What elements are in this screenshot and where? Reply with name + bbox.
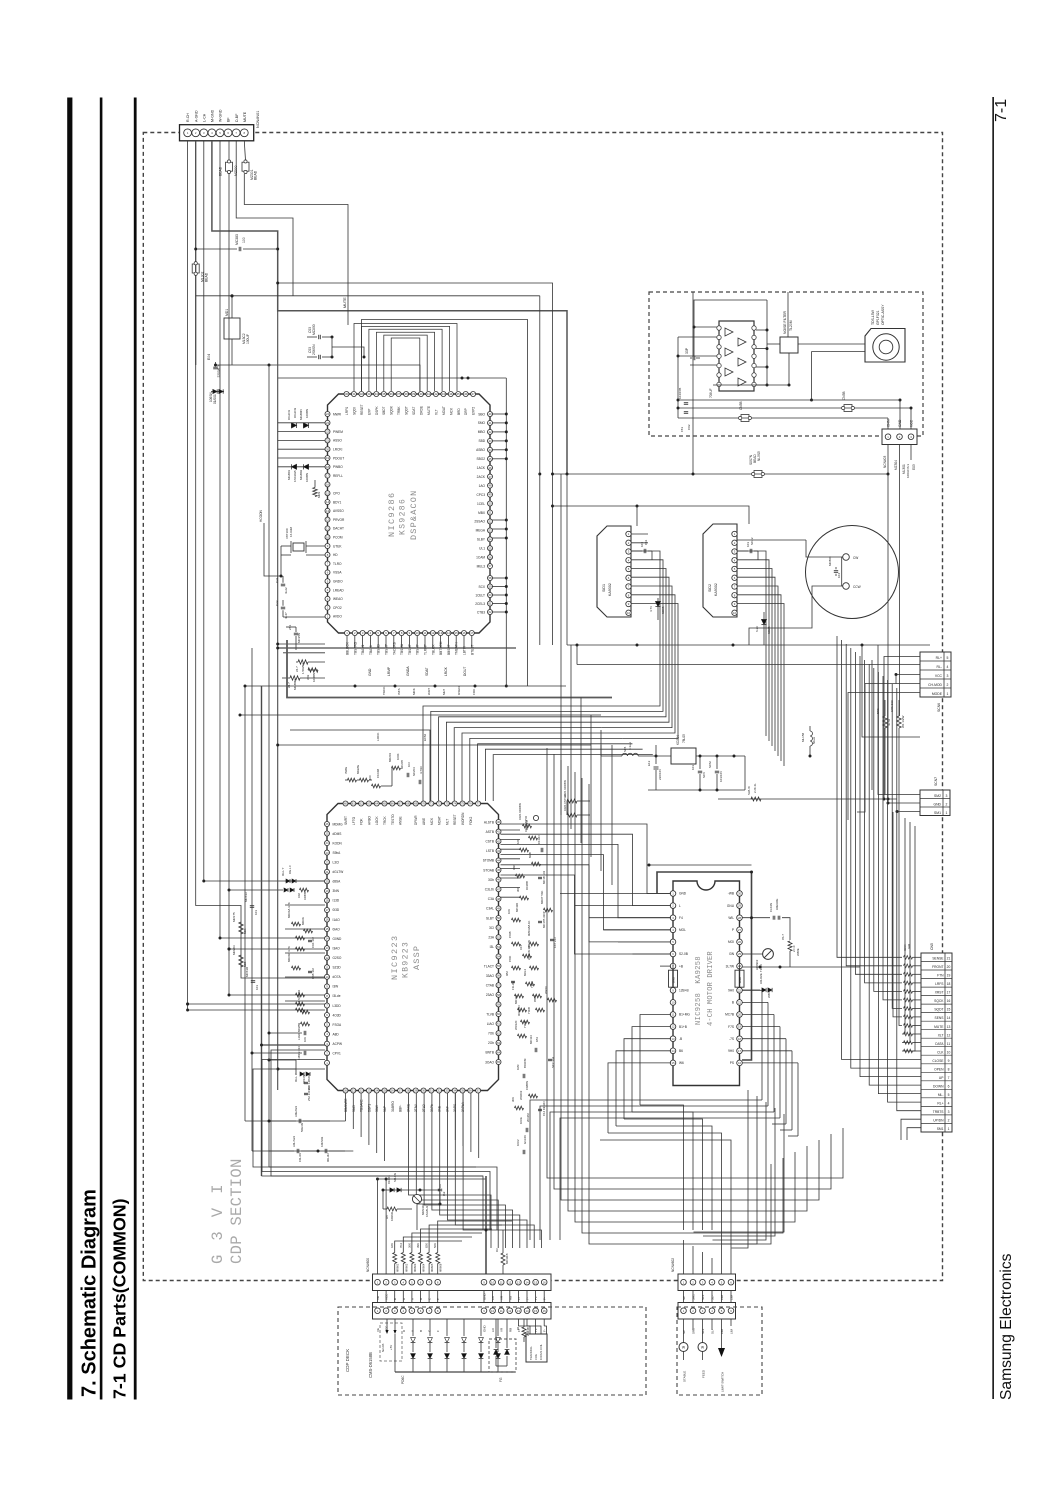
- svg-text:46: 46: [497, 878, 501, 882]
- svg-text:PCOM: PCOM: [333, 536, 343, 540]
- svg-text:-7S: -7S: [729, 1037, 734, 1041]
- svg-text:BDY1: BDY1: [333, 500, 342, 504]
- svg-text:12: 12: [508, 1280, 512, 1284]
- svg-text:10K: 10K: [303, 1037, 307, 1042]
- svg-text:47: 47: [488, 475, 492, 479]
- svg-text:FEED: FEED: [702, 1369, 706, 1378]
- svg-text:RL+: RL+: [937, 1101, 943, 1105]
- svg-text:MR66A 4.7K: MR66A 4.7K: [287, 902, 291, 918]
- svg-text:UP: UP: [939, 1076, 944, 1080]
- svg-text:G2SO: G2SO: [333, 956, 342, 960]
- svg-text:56K: 56K: [243, 929, 247, 934]
- svg-text:T+: T+: [534, 1328, 538, 1332]
- svg-text:SZ3D: SZ3D: [333, 966, 342, 970]
- wire motor lower: [749, 586, 843, 645]
- svg-text:RESET: RESET: [360, 404, 364, 415]
- svg-text:E04: E04: [207, 354, 211, 360]
- limit switch dashed box: [677, 1307, 762, 1395]
- svg-text:23: 23: [325, 851, 329, 855]
- svg-text:DACHT: DACHT: [333, 527, 344, 531]
- svg-text:M6L3: M6L3: [523, 969, 527, 976]
- connector NCN#600 row A: [373, 1274, 552, 1291]
- svg-text:2.2K 4L: 2.2K 4L: [753, 783, 757, 793]
- svg-text:15: 15: [534, 1280, 538, 1284]
- regulator KD204 78L05: [671, 748, 696, 764]
- svg-text:6: 6: [948, 1084, 950, 1088]
- svg-text:3: 3: [947, 674, 949, 678]
- svg-text:M6B: M6B: [528, 852, 532, 858]
- svg-text:X021 9RRBN: X021 9RRBN: [518, 803, 522, 820]
- svg-text:MGB02: MGB02: [299, 469, 303, 480]
- svg-text:45: 45: [457, 392, 461, 396]
- capacitor A0L/S22: [269, 1150, 294, 1152]
- svg-text:RB: RB: [508, 1328, 512, 1332]
- svg-text:35: 35: [461, 1089, 465, 1093]
- svg-text:104: 104: [837, 573, 841, 578]
- svg-text:3: 3: [948, 1110, 950, 1114]
- svg-text:GND: GND: [483, 1293, 487, 1301]
- wires SCN6: [884, 657, 920, 800]
- svg-text:19: 19: [326, 456, 330, 460]
- svg-text:SL-: SL-: [711, 1329, 715, 1334]
- svg-text:GND: GND: [368, 668, 372, 676]
- IC U2 NIC9223 body: [327, 804, 499, 1091]
- svg-text:13: 13: [439, 631, 443, 635]
- svg-text:F4: F4: [679, 916, 683, 920]
- wire noise filter to optic: [798, 343, 865, 345]
- svg-text:MZ304: MZ304: [894, 460, 898, 470]
- svg-text:50: 50: [488, 502, 492, 506]
- svg-text:CN3B: CN3B: [739, 401, 743, 410]
- wire trunk pin2 bead: [195, 141, 197, 365]
- svg-text:C3A: C3A: [488, 897, 495, 901]
- svg-text:SR1: SR1: [692, 1294, 696, 1300]
- svg-text:TLRO: TLRO: [333, 562, 342, 566]
- svg-text:CN3B: CN3B: [842, 391, 846, 400]
- svg-text:17: 17: [326, 474, 330, 478]
- IC U2 right wrap loops: [501, 824, 672, 894]
- svg-text:30: 30: [345, 392, 349, 396]
- svg-text:61: 61: [488, 602, 492, 606]
- svg-text:MR66P 4.7K: MR66P 4.7K: [287, 946, 291, 962]
- wire h y378: [278, 377, 507, 379]
- svg-text:MGB0N: MGB0N: [293, 679, 297, 690]
- svg-text:ASTB: ASTB: [486, 830, 494, 834]
- svg-text:C113N: C113N: [537, 836, 541, 845]
- svg-text:44: 44: [497, 859, 501, 863]
- svg-text:56: 56: [497, 974, 501, 978]
- svg-text:NIC9286: NIC9286: [387, 491, 397, 537]
- svg-text:BNTB: BNTB: [485, 1051, 494, 1055]
- svg-text:3CI: 3CI: [489, 926, 494, 930]
- svg-text:MR604: MR604: [422, 1263, 426, 1272]
- ferrite bead CN3B-1: [741, 415, 749, 422]
- svg-text:VE: VE: [376, 1328, 380, 1332]
- wire loops bottom mid: [262, 1175, 484, 1177]
- svg-text:A02: A02: [306, 674, 310, 680]
- svg-text:NOISE FILTER: NOISE FILTER: [783, 311, 787, 334]
- svg-text:F-: F-: [543, 1297, 547, 1300]
- svg-text:IHR: IHR: [907, 943, 911, 949]
- svg-text:MCK: MCK: [412, 687, 416, 695]
- trimmer VR1: [763, 949, 774, 960]
- svg-text:2: 2: [948, 1119, 950, 1123]
- svg-text:SBD: SBD: [478, 439, 485, 443]
- wire trunk x245: [244, 686, 246, 1121]
- svg-text:11: 11: [500, 1280, 503, 1284]
- connector SCN6 5pin: [920, 652, 951, 697]
- svg-text:G0ND: G0ND: [333, 937, 343, 941]
- connector NCN#03: [882, 429, 917, 445]
- IC U1 right pins: [488, 412, 493, 417]
- svg-text:MC113: MC113: [529, 1035, 533, 1044]
- svg-text:32: 32: [438, 1089, 442, 1093]
- svg-text:W-GND: W-GND: [219, 109, 223, 122]
- svg-text:KSA8U2: KSA8U2: [425, 1206, 429, 1217]
- svg-text:12: 12: [431, 631, 435, 635]
- svg-text:KA9302: KA9302: [608, 583, 612, 596]
- svg-text:CTAB: CTAB: [486, 984, 494, 988]
- connector CN5 21pin: [921, 953, 952, 1132]
- svg-text:11: 11: [424, 631, 427, 635]
- svg-text:CDP DECK: CDP DECK: [345, 1349, 350, 1372]
- connector SCN7 3pin: [920, 790, 950, 816]
- deck +5V pins: [380, 1323, 402, 1361]
- wire bus under U2: [245, 1120, 346, 1122]
- IC U1 right mid pin wires: [492, 519, 506, 521]
- svg-text:1B3: 1B3: [535, 1037, 539, 1042]
- capacitor MC383: [196, 248, 237, 250]
- svg-text:0IAO: 0IAO: [333, 927, 341, 931]
- svg-text:4-CH MOTOR DRIVER: 4-CH MOTOR DRIVER: [707, 951, 715, 1026]
- svg-text:22: 22: [360, 1089, 364, 1093]
- svg-text:56K: 56K: [433, 1243, 437, 1248]
- svg-text:MLT: MLT: [445, 819, 449, 825]
- svg-text:150B: 150B: [508, 931, 512, 938]
- svg-text:I3AO: I3AO: [333, 946, 341, 950]
- wires CN602 from above: [683, 1240, 685, 1274]
- wires SID1 pins left: [632, 533, 649, 535]
- svg-text:PWBO: PWBO: [333, 465, 343, 469]
- svg-text:DG.L F: DG.L F: [288, 865, 292, 874]
- svg-text:SENSE: SENSE: [932, 957, 944, 961]
- capacitor SCM: [716, 756, 718, 769]
- svg-text:24: 24: [326, 412, 330, 416]
- svg-text:MWR: MWR: [333, 412, 342, 416]
- svg-text:TBLOX: TBLOX: [431, 644, 435, 655]
- svg-text:LO: LO: [491, 1295, 495, 1300]
- svg-text:SD25: SD25: [767, 626, 771, 634]
- CDP DECK dashed box: [338, 1307, 646, 1395]
- svg-text:MDMG: MDMG: [333, 822, 344, 826]
- svg-text:37: 37: [477, 1089, 481, 1093]
- main dashed frame: [143, 133, 942, 1281]
- svg-text:2Ob: 2Ob: [488, 1041, 494, 1045]
- svg-text:XLT: XLT: [938, 1033, 944, 1037]
- svg-text:BBSRT: BBSRT: [447, 644, 451, 655]
- svg-text:49: 49: [497, 907, 501, 911]
- svg-text:A0L/S22: A0L/S22: [292, 1136, 296, 1147]
- svg-text:CTB3: CTB3: [477, 610, 485, 614]
- svg-text:25: 25: [325, 832, 329, 836]
- svg-text:G 3 V I: G 3 V I: [209, 1182, 227, 1264]
- svg-text:26: 26: [325, 822, 329, 826]
- svg-text:100BN: 100BN: [312, 673, 316, 682]
- IC hex inverter KD305: [719, 321, 754, 391]
- svg-text:100UF: 100UF: [246, 334, 250, 344]
- sub assembly dashed box: [649, 292, 923, 436]
- svg-text:MR602: MR602: [404, 1263, 408, 1272]
- svg-text:82K: 82K: [425, 1243, 429, 1248]
- svg-text:COIL: COIL: [534, 1353, 538, 1360]
- svg-text:B1+B: B1+B: [679, 1025, 687, 1029]
- svg-text:CCW: CCW: [853, 585, 861, 589]
- svg-text:K0I/S02: K0I/S02: [320, 1136, 324, 1147]
- svg-text:10: 10: [491, 1309, 495, 1313]
- capacitor 104/C05: [684, 402, 688, 404]
- svg-text:TLACT: TLACT: [484, 964, 494, 968]
- svg-text:C02: C02: [687, 424, 691, 430]
- svg-text:1K02: 1K02: [516, 1139, 520, 1146]
- svg-text:SL1: SL1: [701, 1294, 705, 1300]
- svg-text:LIM: LIM: [730, 1294, 734, 1300]
- svg-text:9: 9: [948, 1059, 950, 1063]
- svg-text:13: 13: [517, 1280, 521, 1284]
- wire trunk x252: [251, 648, 253, 1151]
- svg-text:I13D: I13D: [333, 899, 340, 903]
- svg-text:ML-: ML-: [938, 1093, 944, 1097]
- svg-text:27: 27: [399, 1089, 403, 1093]
- svg-text:2CEL3: 2CEL3: [475, 602, 485, 606]
- svg-text:3ABRO: 3ABRO: [391, 1101, 395, 1112]
- page rule thick left: [67, 98, 72, 1400]
- svg-text:34: 34: [453, 1089, 457, 1093]
- svg-text:UTEK: UTEK: [333, 544, 342, 548]
- svg-text:13: 13: [325, 946, 329, 950]
- svg-text:MR605: MR605: [430, 1263, 434, 1272]
- svg-text:SCM: SCM: [708, 761, 712, 768]
- svg-text:12B+B: 12B+B: [679, 989, 689, 993]
- svg-text:73: 73: [445, 802, 449, 806]
- limit switch arrow: [721, 1319, 723, 1348]
- capacitor 33P: [692, 356, 694, 360]
- svg-text:TRCK: TRCK: [382, 686, 386, 695]
- wires Q601: [382, 1190, 384, 1209]
- IC U1 top pin hairpin bus: [354, 324, 457, 392]
- svg-text:51: 51: [497, 926, 501, 930]
- svg-text:50: 50: [497, 916, 501, 920]
- svg-text:34: 34: [375, 392, 379, 396]
- resistor MR pin2: [290, 676, 300, 680]
- svg-text:20: 20: [326, 447, 330, 451]
- FG diodes: [495, 1319, 497, 1348]
- svg-text:d8SA: d8SA: [333, 880, 342, 884]
- wire x862 down: [862, 645, 920, 737]
- svg-text:103: 103: [691, 765, 695, 770]
- svg-text:MR3: MR3: [317, 491, 321, 498]
- svg-text:12: 12: [947, 1033, 951, 1037]
- wire x568 vertical: [566, 474, 568, 645]
- page rule inner left: [134, 98, 137, 1400]
- svg-text:1ACK: 1ACK: [477, 466, 486, 470]
- wire x872 segment: [871, 660, 873, 790]
- svg-text:ASSP: ASSP: [412, 945, 422, 970]
- left cluster components U2: [196, 365, 325, 978]
- svg-text:MDAT: MDAT: [442, 406, 446, 415]
- svg-text:TBSMF: TBSMF: [416, 644, 420, 655]
- svg-text:9H0: 9H0: [728, 1049, 734, 1053]
- diode SD05: [655, 601, 660, 606]
- svg-text:S2-0B: S2-0B: [679, 952, 688, 956]
- svg-text:CLK: CLK: [937, 1050, 944, 1054]
- svg-text:40: 40: [419, 392, 423, 396]
- svg-text:OG1N3: OG1N3: [293, 407, 297, 418]
- svg-text:18: 18: [325, 899, 329, 903]
- svg-text:2: 2: [947, 683, 949, 687]
- capacitor 2S1: [294, 632, 298, 634]
- svg-text:NC204: NC204: [412, 767, 416, 776]
- svg-text:L3DD: L3DD: [333, 1004, 342, 1008]
- svg-text:MUTE: MUTE: [243, 111, 247, 122]
- svg-text:+B: +B: [679, 964, 683, 968]
- resistor SR5: [883, 716, 887, 728]
- svg-text:VCC: VCC: [935, 674, 943, 678]
- svg-text:3AW: 3AW: [375, 1105, 379, 1112]
- capacitor E13: [655, 756, 657, 764]
- wires U3 right components: [742, 917, 770, 919]
- svg-text:TBAU1: TBAU1: [361, 644, 365, 655]
- svg-text:2013M: 2013M: [526, 1113, 530, 1122]
- svg-text:DBF1: DBF1: [367, 1104, 371, 1112]
- svg-text:SC6: SC6: [702, 772, 706, 778]
- svg-text:WORDN: WORDN: [461, 812, 465, 825]
- svg-text:TBAL1: TBAL1: [369, 645, 373, 655]
- svg-text:43: 43: [488, 439, 492, 443]
- svg-text:LRFS: LRFS: [935, 982, 944, 986]
- IC U1 NIC9286 body: [328, 394, 491, 633]
- svg-text:14: 14: [947, 1016, 951, 1020]
- svg-text:27: 27: [738, 928, 742, 932]
- page rule right: [992, 97, 994, 1399]
- wire hex right common: [766, 330, 768, 385]
- svg-text:16: 16: [738, 1061, 742, 1065]
- svg-text:REFLL: REFLL: [333, 474, 343, 478]
- svg-text:2ACK: 2ACK: [477, 475, 486, 479]
- resistor MR pin3: [308, 668, 318, 672]
- gnd bus y790: [648, 789, 745, 791]
- svg-text:60: 60: [344, 802, 348, 806]
- svg-text:SP: SP: [682, 1330, 686, 1334]
- svg-text:16: 16: [326, 483, 330, 487]
- svg-text:LO: LO: [491, 1327, 495, 1332]
- svg-text:PWEM: PWEM: [333, 430, 343, 434]
- IC SID1 pins: [626, 531, 631, 536]
- capacitor L1GN: [303, 1031, 305, 1035]
- wire trunk x262: [261, 686, 263, 1176]
- wires CN5 remaining rows: [893, 812, 902, 1017]
- noise filter TL20M: [780, 337, 798, 353]
- svg-text:22: 22: [738, 988, 742, 992]
- svg-text:55: 55: [497, 964, 501, 968]
- svg-text:WR90N 39K: WR90N 39K: [527, 944, 531, 960]
- svg-text:TBSAKE: TBSAKE: [360, 1099, 364, 1112]
- svg-text:SID1: SID1: [602, 584, 606, 592]
- svg-text:MGB0N: MGB0N: [299, 409, 303, 420]
- switch SW1: [679, 1343, 688, 1352]
- connector NCN#602 row B: [678, 1303, 736, 1320]
- wires U3 lower left entries: [640, 1015, 671, 1106]
- svg-text:SLBT: SLBT: [486, 916, 494, 920]
- svg-text:36: 36: [469, 1089, 473, 1093]
- svg-text:SMRT: SMRT: [344, 816, 348, 825]
- svg-text:0I3D: 0I3D: [333, 908, 340, 912]
- svg-text:40: 40: [497, 820, 501, 824]
- svg-text:18: 18: [326, 465, 330, 469]
- svg-text:I3W: I3W: [333, 985, 339, 989]
- svg-text:TESTO: TESTO: [391, 814, 395, 825]
- svg-text:DRDE: DRDE: [420, 406, 424, 415]
- wire trunk from CN#N01 pin5: [219, 141, 221, 938]
- svg-text:41: 41: [488, 421, 492, 425]
- svg-text:LIAO: LIAO: [487, 1022, 495, 1026]
- svg-text:SQDT: SQDT: [934, 1008, 943, 1012]
- svg-text:26: 26: [738, 940, 742, 944]
- wire U3 dark loop: [657, 872, 752, 1060]
- svg-text:NL5S5: NL5S5: [757, 451, 761, 461]
- wires SCN7: [878, 645, 920, 795]
- svg-text:FT: FT: [517, 1296, 521, 1300]
- svg-text:A0E/A0E: A0E/A0E: [775, 899, 779, 910]
- svg-text:19: 19: [738, 1025, 742, 1029]
- svg-text:1.5GBR: 1.5GBR: [301, 662, 305, 674]
- svg-text:PS: PS: [730, 1061, 734, 1065]
- svg-text:100BN: 100BN: [305, 473, 309, 482]
- svg-text:FG: FG: [499, 1377, 503, 1382]
- svg-text:W1 1/2W: W1 1/2W: [901, 715, 905, 728]
- svg-text:ML158: ML158: [801, 732, 805, 742]
- svg-text:GND: GND: [738, 977, 742, 983]
- svg-text:X11: X11: [519, 945, 523, 950]
- svg-text:AWE: AWE: [422, 818, 426, 825]
- svg-text:100UF/6.3: 100UF/6.3: [906, 464, 910, 478]
- svg-text:51: 51: [488, 511, 492, 515]
- svg-text:65: 65: [383, 802, 387, 806]
- svg-text:19: 19: [947, 974, 951, 978]
- svg-text:VE: VE: [376, 1296, 380, 1300]
- svg-text:16.93M: 16.93M: [289, 526, 293, 537]
- svg-text:7Ob: 7Ob: [488, 1032, 494, 1036]
- svg-text:KODN: KODN: [333, 841, 343, 845]
- svg-text:10K: 10K: [507, 909, 511, 914]
- svg-text:1M3: 1M3: [516, 1064, 520, 1070]
- svg-text:0S-7: 0S-7: [781, 934, 785, 940]
- svg-text:VSSA: VSSA: [333, 571, 342, 575]
- capacitor C03 MC800: [307, 336, 317, 338]
- resistor array CN5: [904, 956, 913, 960]
- svg-text:2200/6.3: 2200/6.3: [217, 365, 221, 378]
- svg-text:MC806: MC806: [828, 556, 832, 566]
- resistor near pin GNDO: [298, 660, 308, 664]
- svg-text:1CELT: 1CELT: [475, 593, 485, 597]
- svg-text:41: 41: [427, 392, 431, 396]
- svg-text:dO7A: dO7A: [333, 975, 342, 979]
- IC U2 top pins: [343, 801, 348, 806]
- svg-text:EFM: EFM: [423, 734, 427, 741]
- svg-text:STABLE: STABLE: [683, 1371, 687, 1382]
- svg-text:62: 62: [360, 802, 364, 806]
- svg-text:OPEN: OPEN: [934, 1067, 944, 1071]
- resistor X021 pair: [567, 799, 577, 803]
